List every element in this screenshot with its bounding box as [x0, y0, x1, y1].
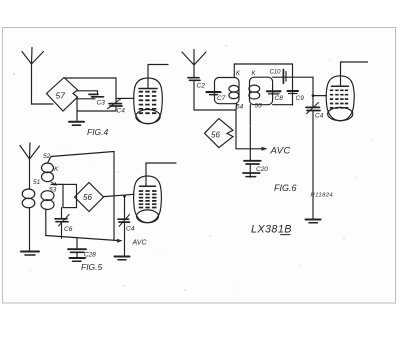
svg-text:LX381B: LX381B: [251, 224, 292, 236]
scan speckles: [13, 45, 372, 290]
antenna (FIG.5): [20, 143, 40, 159]
svg-text:C4: C4: [117, 108, 126, 115]
wire coil51 to ground: [29, 208, 31, 252]
svg-text:57: 57: [56, 91, 66, 101]
svg-text:C4: C4: [315, 113, 324, 120]
tube V1 (FIG.4): [134, 78, 163, 124]
border frame: [3, 28, 396, 304]
tube V2 (FIG.5): [134, 176, 162, 223]
svg-text:C20: C20: [256, 166, 268, 173]
svg-text:K: K: [54, 166, 59, 173]
svg-text:AVC: AVC: [270, 146, 291, 157]
capacitor C3: [89, 94, 105, 106]
wire grid rail (FIG.6): [273, 76, 313, 78]
coil unit 54: [215, 71, 244, 110]
capacitor C8: [267, 91, 283, 102]
ground (FIG.4): [69, 122, 84, 125]
svg-text:C2: C2: [197, 83, 206, 90]
mixer 56 (FIG.5): [75, 183, 104, 212]
capacitor C7: [207, 92, 226, 102]
wire plate lead (FIG.4): [148, 65, 168, 89]
wire box1 top lead: [233, 64, 235, 78]
ground (FIG.6 right): [306, 220, 321, 223]
wire notch upper: [78, 91, 98, 94]
ground (FIG.5 left): [21, 252, 39, 256]
svg-text:AVC: AVC: [132, 240, 148, 247]
wire 55 down lead: [249, 105, 251, 161]
svg-text:FIG.6: FIG.6: [274, 183, 297, 193]
wire 54-junction down to AVC: [236, 104, 264, 149]
inductor 51: [22, 179, 40, 208]
capacitor C4 (FIG.5): [118, 196, 135, 256]
svg-text:56: 56: [83, 193, 92, 202]
svg-text:C10: C10: [270, 70, 282, 76]
wire plate lead (FIG.5): [146, 163, 176, 186]
svg-text:FIG.4: FIG.4: [87, 127, 109, 137]
coil unit 55: [249, 71, 273, 110]
wire grid to tube (FIG.6): [313, 95, 327, 97]
inductor 53: [41, 187, 57, 210]
capacitor C28: [68, 238, 96, 259]
svg-text:55: 55: [255, 103, 263, 110]
wire AVC rail: [46, 236, 119, 241]
label LX381B underline: [281, 234, 291, 236]
wire top bypass: [234, 63, 292, 65]
capacitor C4 (FIG.6): [306, 77, 324, 219]
svg-text:C9: C9: [296, 95, 305, 102]
mixer 57: [47, 78, 78, 112]
wire top loop: [65, 78, 117, 103]
capacitor C4 (FIG.4): [108, 99, 126, 115]
wire loop right side: [113, 152, 115, 240]
svg-text:C8: C8: [275, 95, 284, 102]
wire loop bottom: [77, 107, 116, 112]
ground (below C20): [243, 173, 260, 177]
wire top loop (FIG.5): [48, 152, 115, 164]
svg-text:C3: C3: [97, 100, 106, 107]
svg-text:R11824: R11824: [311, 193, 334, 199]
svg-text:54: 54: [236, 104, 244, 111]
wire antenna down: [29, 158, 31, 189]
svg-text:C6: C6: [64, 226, 73, 233]
node tap arrow: [51, 182, 57, 185]
wire plate lead (FIG.6): [341, 62, 368, 86]
mixer 56 (FIG.6): [205, 119, 234, 148]
capacitor C2: [188, 78, 205, 90]
ground (below C28): [70, 258, 86, 261]
svg-text:C28: C28: [84, 252, 96, 259]
antenna (FIG.6): [182, 50, 206, 66]
capacitor C6: [55, 208, 73, 239]
wire ground lead: [76, 97, 78, 122]
wire antenna rail: [194, 81, 236, 111]
ground (below C4 FIG.5): [115, 257, 130, 260]
capacitor C10: [270, 70, 287, 84]
wire antenna down: [193, 64, 195, 77]
node AVC arrow (FIG.6): [262, 147, 268, 151]
wire grid to tube: [116, 97, 134, 99]
svg-text:53: 53: [49, 187, 57, 194]
node grid junction dot: [312, 94, 315, 97]
node junction dot: [123, 195, 126, 198]
wire notch lower: [78, 97, 96, 99]
svg-text:51: 51: [33, 179, 41, 186]
node AVC arrow: [117, 239, 123, 243]
wire bottom rail (FIG.6): [273, 104, 293, 106]
tube V3 (FIG.6): [326, 76, 354, 121]
capacitor C9: [288, 64, 305, 105]
inductor 52: [42, 163, 60, 182]
svg-text:56: 56: [211, 131, 220, 140]
capacitor C20: [244, 161, 268, 178]
wire coil junction to box: [51, 183, 63, 185]
wire coil53 to rail: [45, 209, 47, 236]
antenna (FIG.4): [22, 48, 44, 65]
wire grid (FIG.5): [104, 194, 135, 196]
svg-text:C4: C4: [126, 226, 135, 233]
wire antenna to mixer: [32, 63, 54, 104]
box coupling unit: [63, 184, 77, 207]
svg-text:C7: C7: [217, 95, 226, 102]
svg-text:FIG.5: FIG.5: [81, 262, 103, 272]
